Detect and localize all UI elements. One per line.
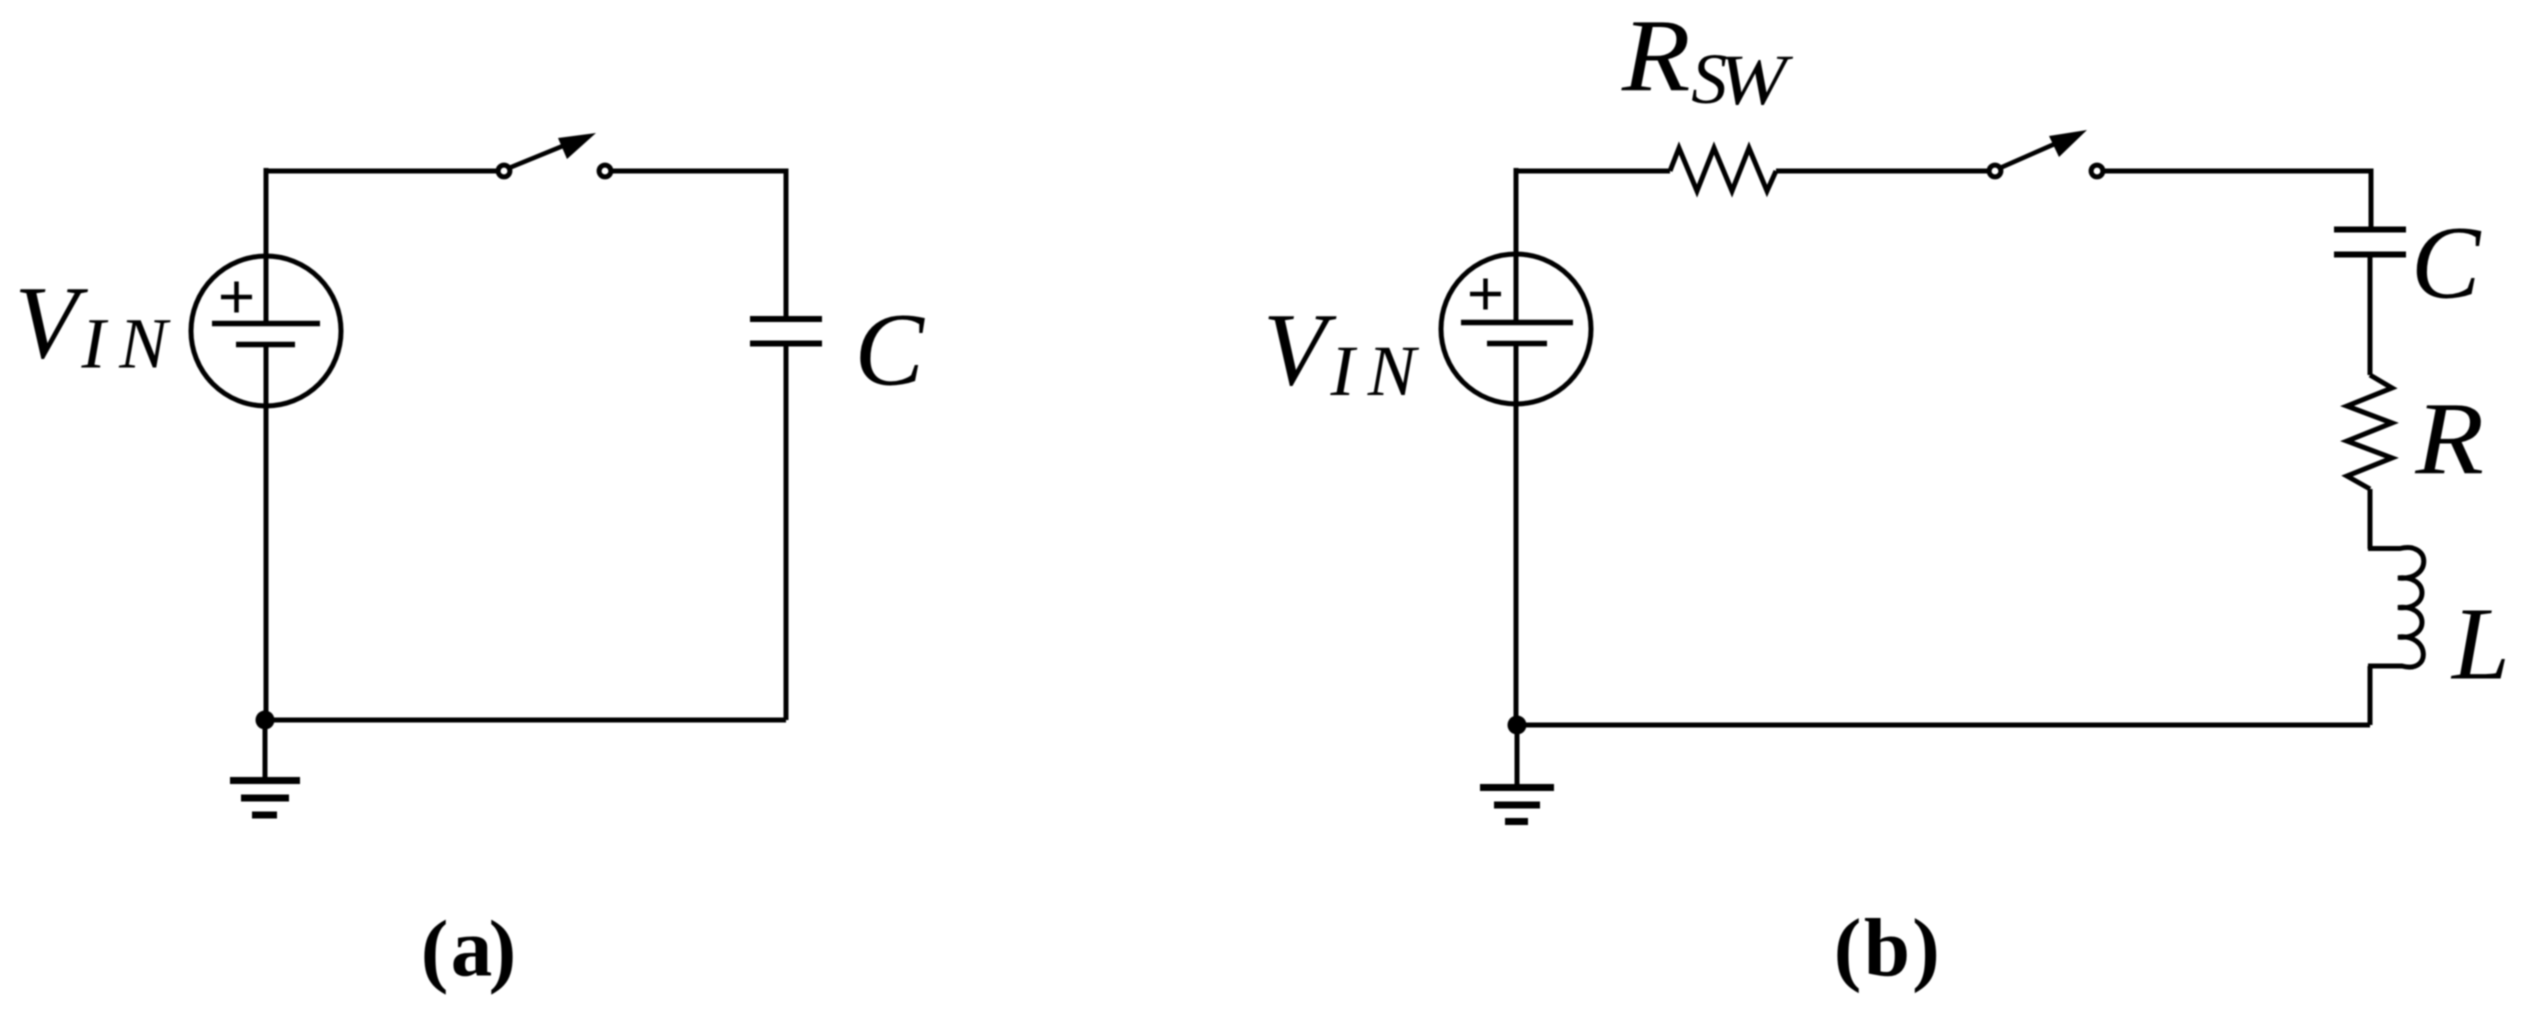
capacitor C top plate (b) xyxy=(2334,227,2406,233)
svg-text:(: ( xyxy=(421,903,449,995)
svg-text:I: I xyxy=(1330,331,1358,411)
ground bar 3 (a) xyxy=(252,812,277,819)
ground bar 3 (b) xyxy=(1505,818,1528,825)
capacitor C bottom plate (a) xyxy=(750,341,822,347)
svg-text:a: a xyxy=(451,902,493,994)
wire inside source upper xyxy=(264,256,269,321)
svg-text:C: C xyxy=(855,292,926,407)
wire resistor to switch (b) xyxy=(1776,169,1988,174)
wire top-left (b): source corner to resistor xyxy=(1516,169,1670,174)
ground stem (b) xyxy=(1515,725,1520,787)
ground bar 2 (b) xyxy=(1494,802,1540,809)
wire inductor to bottom (b) xyxy=(2368,666,2373,725)
svg-text:N: N xyxy=(118,303,171,383)
switch left terminal (b) xyxy=(1989,165,2001,177)
battery short plate (b) xyxy=(1487,341,1547,347)
wire source to bottom node (b) xyxy=(1514,343,1519,725)
wire bottom (b) xyxy=(1517,723,2370,728)
svg-text:C: C xyxy=(2411,205,2482,320)
inductor L (b) xyxy=(2368,548,2424,667)
switch arm (b) xyxy=(2000,139,2066,168)
voltage source circle (b) xyxy=(1441,254,1591,404)
svg-text:V: V xyxy=(1263,292,1337,407)
wire capacitor to resistor (b) xyxy=(2368,254,2373,375)
svg-text:b: b xyxy=(1864,902,1910,994)
capacitor C bottom plate (b) xyxy=(2334,252,2406,258)
svg-text:N: N xyxy=(1367,331,1420,411)
wire capacitor to bottom xyxy=(784,344,789,721)
svg-text:L: L xyxy=(2450,586,2510,701)
wire right vertical upper xyxy=(784,169,789,320)
junction node dot (b) xyxy=(1508,716,1527,735)
wire source to bottom node xyxy=(264,344,269,720)
resistor R_SW zigzag xyxy=(1670,148,1776,191)
svg-text:): ) xyxy=(1912,901,1940,993)
switch right terminal xyxy=(599,165,611,177)
battery long plate (b) xyxy=(1461,320,1573,326)
ground bar 1 (b) xyxy=(1480,784,1554,791)
battery short plate xyxy=(236,342,295,348)
switch left terminal xyxy=(498,165,510,177)
svg-text:I: I xyxy=(81,303,109,383)
svg-text:): ) xyxy=(489,903,517,995)
wire top-left: source to switch xyxy=(266,169,497,174)
wire right vertical upper (b) xyxy=(2369,169,2374,230)
svg-text:(: ( xyxy=(1834,901,1862,993)
wire left vertical upper xyxy=(264,168,269,257)
capacitor C top plate (a) xyxy=(750,316,822,322)
wire switch to capacitor corner (b) xyxy=(2104,169,2371,174)
switch arm xyxy=(509,141,575,168)
svg-text:R: R xyxy=(2414,382,2484,496)
wire inside source upper (b) xyxy=(1514,254,1519,320)
switch arrowhead (b) xyxy=(2049,130,2087,157)
plus sign xyxy=(221,282,252,313)
wire switch to capacitor corner xyxy=(612,169,786,174)
plus sign (b) xyxy=(1470,279,1501,310)
svg-text:W: W xyxy=(1718,40,1794,120)
battery long plate xyxy=(212,321,320,327)
ground bar 2 (a) xyxy=(241,795,289,802)
wire resistor to inductor (b) xyxy=(2368,489,2373,549)
resistor R zigzag (b) xyxy=(2347,375,2392,489)
svg-text:V: V xyxy=(15,265,89,380)
junction node dot (a) xyxy=(256,711,275,730)
ground bar 1 (a) xyxy=(230,777,300,784)
switch right terminal (b) xyxy=(2091,165,2103,177)
wire bottom (a) xyxy=(265,718,786,723)
voltage source V_IN circle xyxy=(191,256,341,406)
svg-text:R: R xyxy=(1621,0,1691,113)
ground stem (a) xyxy=(263,720,268,780)
switch arrowhead xyxy=(558,133,596,159)
wire left vertical upper (b) xyxy=(1514,168,1519,255)
